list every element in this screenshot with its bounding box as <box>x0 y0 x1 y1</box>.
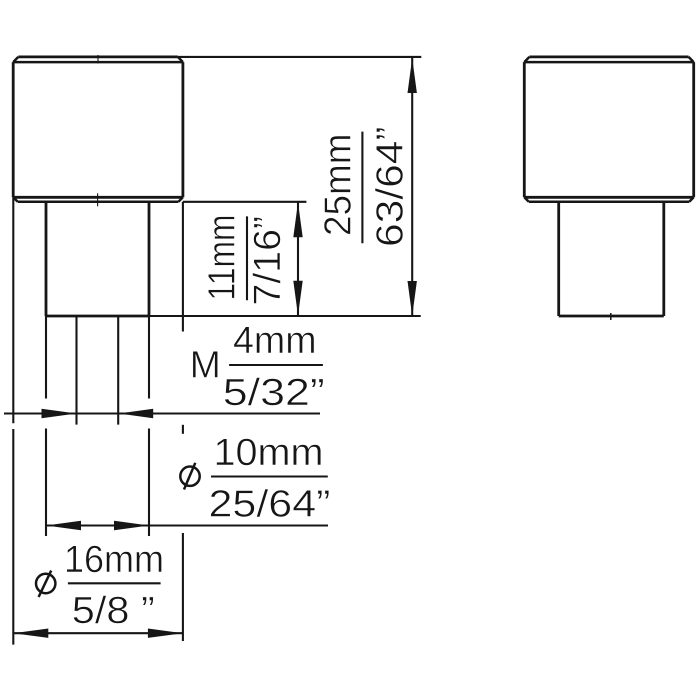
dimension line diameter 10 <box>46 524 328 526</box>
fraction bar 25mm/63-64 (vertical) <box>361 132 363 244</box>
diameter symbol for 10mm <box>180 467 199 486</box>
knob head side view: bottom outer edge <box>524 196 693 199</box>
extension line head-left lower segment a <box>12 197 14 423</box>
knob head front view: bottom inner line <box>18 201 179 204</box>
dimension line M4 <box>4 412 320 414</box>
knob stem front view: bottom edge <box>46 315 149 318</box>
dimension line diameter 16 <box>13 632 183 634</box>
svg-text:63/64”: 63/64” <box>370 126 412 247</box>
center tick head bottom <box>97 193 99 206</box>
arrow 11mm bottom <box>293 281 302 316</box>
knob head front view: second top line <box>13 61 183 64</box>
fraction bar 16mm/5-8 <box>68 582 161 584</box>
svg-text:5/8 ”: 5/8 ” <box>72 590 155 632</box>
knob head side view: bottom-left chamfer <box>524 197 529 202</box>
thread line left <box>75 316 77 425</box>
arrow d16 left <box>13 629 48 638</box>
extension line head-right lower segment b <box>182 533 184 641</box>
arrow d10 right <box>114 521 149 530</box>
knob head side view: second top line <box>524 61 693 64</box>
extension line head-right dash <box>182 425 184 434</box>
knob head side view: bottom inner line <box>529 201 689 204</box>
svg-text:10mm: 10mm <box>214 432 324 474</box>
dimension line 25mm <box>411 58 413 316</box>
extension line from head bottom to 11mm dimension <box>183 201 307 203</box>
knob head front view: left edge <box>12 62 15 197</box>
extension line stem-left lower segment a <box>45 316 47 399</box>
arrow d16 right <box>148 629 183 638</box>
svg-text:7/16”: 7/16” <box>247 216 289 306</box>
fraction bar 11mm/7-16 (vertical) <box>246 216 248 300</box>
center tick stem bottom side view <box>610 313 612 320</box>
knob head side view: top-left chamfer <box>524 57 529 62</box>
knob head side view: top-right chamfer <box>689 57 694 62</box>
extension line stem-left lower segment b <box>45 429 47 537</box>
arrow d10 left <box>46 521 81 530</box>
extension line stem-right lower segment a <box>148 316 150 399</box>
dimension line 11mm <box>297 202 299 316</box>
knob stem side view: bottom edge <box>559 315 664 318</box>
thread line right <box>117 316 119 425</box>
arrow M4 right <box>118 409 153 418</box>
arrow 11mm top <box>293 202 302 237</box>
extension line head-left lower segment b <box>12 429 14 645</box>
svg-text:25mm: 25mm <box>318 134 360 237</box>
knob head front view: right edge <box>181 62 184 197</box>
knob head front view: top outer edge <box>18 56 178 59</box>
knob head front view: top-left chamfer <box>13 57 18 62</box>
arrow 25mm bottom <box>408 281 417 316</box>
knob head front view: top-right chamfer <box>178 57 183 62</box>
extension line from stem bottom to the right <box>149 315 421 317</box>
knob head side view: left edge <box>523 62 526 197</box>
knob head side view: bottom-right chamfer <box>689 197 694 202</box>
knob stem side view: left edge <box>557 202 560 316</box>
svg-text:M: M <box>190 345 221 387</box>
center tick head top <box>97 55 99 64</box>
knob stem front view: left edge <box>45 202 48 316</box>
diameter symbol for 16mm <box>36 574 55 593</box>
extension line from head top to 25mm dimension <box>178 56 421 58</box>
knob stem front view: right edge <box>148 202 151 316</box>
svg-text:11mm: 11mm <box>202 215 244 301</box>
knob head side view: top outer edge <box>529 56 688 59</box>
fraction bar 4mm/5-32 <box>229 364 323 366</box>
fraction bar 10mm/25-64 <box>211 475 328 477</box>
knob stem side view: right edge <box>662 202 665 316</box>
arrow 25mm top <box>408 58 417 93</box>
knob head front view: bottom outer edge <box>13 196 183 199</box>
extension line head-right lower segment a <box>182 202 184 332</box>
svg-text:25/64”: 25/64” <box>209 484 331 526</box>
svg-text:16mm: 16mm <box>64 539 164 581</box>
knob head front view: bottom-right chamfer <box>178 197 183 202</box>
svg-text:4mm: 4mm <box>233 320 317 362</box>
knob head side view: right edge <box>692 62 695 197</box>
knob head front view: bottom-left chamfer <box>13 197 18 202</box>
svg-text:5/32”: 5/32” <box>223 372 325 414</box>
extension line stem-right lower segment b <box>148 429 150 537</box>
arrow M4 left <box>42 409 77 418</box>
